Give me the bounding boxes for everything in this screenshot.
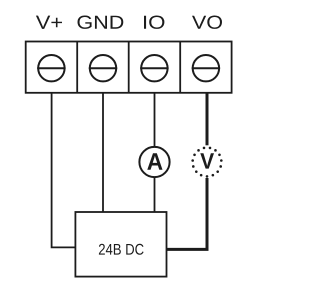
ammeter A	[139, 147, 169, 177]
label V+	[36, 16, 62, 29]
wire V+ down and right to power supply left side	[52, 93, 78, 248]
terminal block outline	[26, 42, 232, 93]
terminal divider 1	[76, 42, 78, 93]
voltmeter V (dotted)	[191, 146, 222, 177]
wire IO to ammeter	[154, 93, 156, 148]
wire VO to voltmeter (bold)	[206, 93, 209, 146]
screw terminal GND	[89, 55, 117, 81]
label VO	[192, 16, 222, 29]
label IO	[144, 16, 164, 29]
screw terminal IO	[140, 55, 168, 81]
wire ammeter to power supply top	[154, 176, 156, 214]
power supply label 24B DC	[99, 244, 144, 255]
wire GND down to power supply top	[102, 93, 104, 214]
terminal divider 3	[179, 42, 181, 93]
screw terminal V+	[37, 55, 65, 81]
wire voltmeter down and left to power supply right side (bold)	[165, 178, 207, 249]
power supply box 24V DC	[75, 212, 166, 277]
terminal divider 2	[128, 42, 130, 93]
label GND	[78, 16, 124, 29]
screw terminal VO	[192, 55, 220, 81]
